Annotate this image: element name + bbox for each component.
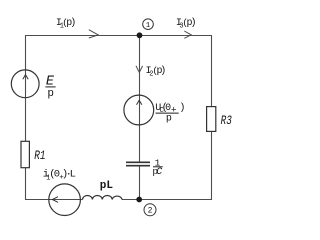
resistor R3 [207, 107, 216, 132]
svg-text:R1: R1 [34, 150, 45, 164]
wire right upper segment [211, 35, 213, 106]
label Uc(0+)/p [155, 102, 185, 125]
wire inductor to node 2 [122, 199, 140, 201]
voltage source E/p [11, 70, 39, 98]
wire middle node 1 down to source Uc [139, 36, 141, 96]
wire current source to inductor [81, 199, 83, 201]
wire bottom left corner to current source [25, 199, 49, 201]
wire left top segment [25, 35, 27, 70]
current arrow I3 [184, 31, 191, 38]
wire through source Uc [139, 95, 141, 125]
wire bottom node 2 to right corner [140, 199, 213, 201]
wire top node 1 to right corner [140, 35, 213, 37]
wire middle source Uc to capacitor [139, 125, 141, 161]
svg-text:p: p [47, 88, 54, 100]
node 2 circled [144, 204, 156, 216]
svg-text:I1(p): I1(p) [56, 17, 76, 30]
arrow of current source [52, 197, 58, 203]
label E/p [45, 74, 55, 100]
node 1 circled [143, 19, 154, 30]
svg-text:1: 1 [146, 22, 151, 30]
label R1 [34, 150, 45, 164]
capacitor 1/pC [126, 162, 150, 165]
svg-text:i1(0+)·L: i1(0+)·L [43, 169, 76, 183]
wire left between source E and R1 [25, 98, 27, 141]
current source i1(0+)L [49, 184, 81, 216]
resistor R1 [21, 141, 29, 167]
svg-text:I2(p): I2(p) [146, 65, 167, 79]
wire top left corner to node 1 [25, 35, 140, 37]
svg-text:pL: pL [100, 180, 114, 192]
svg-text:I3(p): I3(p) [176, 17, 197, 30]
label R3 [221, 115, 233, 129]
current arrow I2 [136, 66, 143, 73]
svg-text:R3: R3 [221, 115, 233, 129]
wire left below R1 [25, 168, 27, 200]
svg-text:2: 2 [148, 207, 153, 216]
source Uc(0+)/p [124, 95, 154, 125]
inductor pL [83, 196, 123, 200]
junction dot top node [137, 32, 143, 38]
wire through current source [49, 199, 81, 201]
label 1/pC [152, 157, 162, 178]
arrow of source E [23, 75, 28, 80]
svg-text:p: p [166, 113, 172, 124]
svg-text:C: C [156, 167, 162, 178]
wire through source E [25, 70, 27, 98]
current arrow I1 [89, 30, 98, 38]
wire right lower segment [211, 132, 213, 200]
junction dot bottom node [136, 197, 142, 203]
arrow of source Uc [137, 100, 142, 105]
wire middle capacitor to node 2 [139, 166, 141, 199]
